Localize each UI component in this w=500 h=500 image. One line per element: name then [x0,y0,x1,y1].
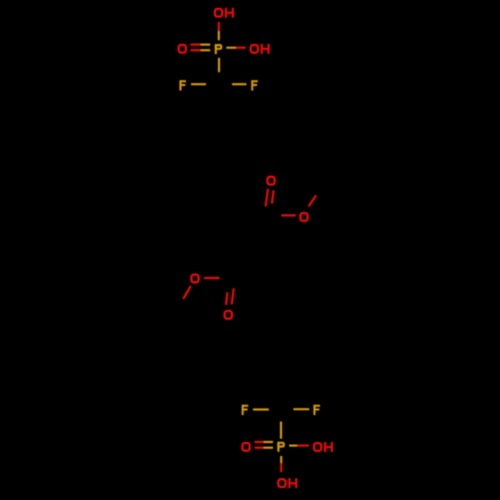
atom label P1 (top phosphorus) [216,44,221,54]
double bond O=P2 line2 O half (red) [255,447,264,449]
atom label O (upper ester carbonyl oxygen) [267,177,274,185]
atom label F (bottom left fluorine) [242,405,248,415]
atom label O (doubly bonded oxygen of P1) [179,45,186,53]
double bond C=O lower ester line2 (red) [226,292,227,305]
bond P1-OH right, P half (gold) [226,47,236,49]
double bond C=O upper ester line2 (red) [272,190,274,203]
atom label OH (top hydroxyl of phosphonate P1) [215,8,233,18]
atom label OH (right hydroxyl of P1) [251,44,269,54]
atom label F (top left fluorine) [180,80,186,90]
bond O-CH3 upper ester (O half, red) [309,195,316,206]
double bond C=O upper ester line1 (red) [266,189,268,207]
atom label P2 (bottom phosphorus) [278,442,283,452]
bond P1-C1 (P half, gold; C half invisible) [218,58,220,72]
bond C2-P2 (P half, gold) [280,422,282,439]
double bond O=P2 line1 P half (gold) [263,441,273,443]
bond P2-OH bottom, O half (red) [280,463,282,472]
bond O-P1 lower half (P side, gold) [218,31,220,41]
double bond O=P2 line2 P half (gold) [263,447,273,449]
double bond O=P1 line1 O half (red) [190,43,200,45]
double bond O=P1 line2 P half (gold) [200,49,210,51]
bond P2-OH right, O half (red) [297,445,309,447]
double bond O=P1 line2 O half (red) [190,49,200,51]
atom label F (bottom right fluorine) [314,405,320,415]
bond C-O upper ester (O half, red) [281,214,296,216]
bond P2-OH bottom, P half (gold) [280,456,282,463]
atom label O (upper ester oxygen) [300,213,307,221]
bond O-CH3 lower ester (O half, red) [183,286,191,299]
atom label F (top right fluorine) [252,80,258,90]
double bond C=O lower ester line1 (red) [232,288,234,304]
bond C2-F bottom right (F half, gold) [293,408,309,410]
bond F-C2 bottom left (F half, gold) [253,408,269,410]
bond O-P1 upper half (O side, red) [218,22,220,31]
bond P2-OH right, P half (gold) [289,445,297,447]
bond P1-OH right, O half (red) [236,47,246,49]
atom label O (lower ester carbonyl oxygen) [225,311,232,319]
double bond O=P2 line1 O half (red) [255,441,264,443]
bond C1-F right (F half, gold) [232,83,246,85]
atom label O (lower ester oxygen) [191,275,198,283]
bond O-C lower ester (O half, red) [204,277,220,279]
atom label O (doubly bonded oxygen of P2) [242,443,249,451]
bond F-C1 left (F half, gold) [191,83,206,85]
double bond O=P1 line1 P half (gold) [200,43,210,45]
atom label OH (bottom hydroxyl of P2) [278,478,296,488]
atom label OH (right hydroxyl of P2) [314,442,332,452]
